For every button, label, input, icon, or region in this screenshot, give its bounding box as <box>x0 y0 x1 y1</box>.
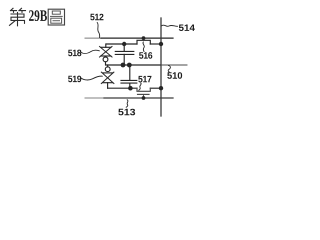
label 519 <box>68 76 102 83</box>
junction dot: lower capacitor bottom <box>128 86 133 91</box>
leader of label 512 <box>97 23 99 38</box>
junction dot: TFT 516 drain on data line <box>159 42 163 46</box>
char 圖 <box>48 9 64 25</box>
text 29B <box>29 10 47 21</box>
junction dot: TFT 517 drain on data line <box>159 86 163 90</box>
label 510 <box>167 66 182 79</box>
label 518 <box>68 50 99 57</box>
junction dot: upper capacitor bottom on line 510 <box>121 63 126 68</box>
leader of label 510 <box>168 66 170 73</box>
common line 510 right extension <box>161 64 187 66</box>
leader of label 516 <box>143 42 144 52</box>
TFT 517 <box>137 88 150 100</box>
leader of label 517 <box>139 83 141 90</box>
pixel wire upper (LC/cap to TFT 516) <box>106 43 137 45</box>
title: figure caption 第29B圖 <box>10 8 65 26</box>
leader of label 518 <box>81 50 99 53</box>
wire: TFT 516 drain to data line <box>150 43 161 45</box>
storage capacitor lower <box>121 65 137 88</box>
TFT 516 <box>137 36 150 44</box>
leader of label 519 <box>81 76 102 80</box>
label 514 <box>162 25 195 31</box>
char 第 <box>10 8 26 26</box>
junction dot: upper capacitor top <box>122 42 126 46</box>
storage capacitor upper <box>115 44 134 65</box>
junction dot: lower capacitor top on line 510 <box>127 63 132 68</box>
leader of label 513 <box>126 100 128 108</box>
LC element 519 (circle with hourglass symbol) <box>101 65 114 88</box>
common line 510 <box>106 64 161 66</box>
label 516 <box>139 42 152 59</box>
leader of label 514 <box>162 25 178 26</box>
gate line 513 (faded left end) <box>85 97 104 99</box>
LC element 518 (hourglass symbol with circle) <box>100 44 113 65</box>
label 512 <box>90 14 103 38</box>
gate bar of TFT 517 <box>138 93 150 95</box>
label 513 <box>118 100 135 116</box>
gate stub of TFT 517 <box>143 94 145 98</box>
data line 514 <box>160 18 162 116</box>
gate line 512 <box>101 37 173 39</box>
gate junction dot of TFT 516 on line 512 <box>142 36 146 40</box>
pixel wire lower (LC/cap to TFT 517) <box>108 87 137 89</box>
gate line 513 <box>104 97 173 99</box>
label 517 <box>138 76 151 90</box>
gate line 512 (faded left end) <box>85 37 101 39</box>
wire: TFT 517 drain to data line <box>150 87 161 89</box>
gate junction dot of TFT 517 on line 513 <box>142 96 146 100</box>
